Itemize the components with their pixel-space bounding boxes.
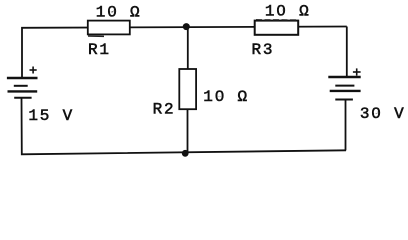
svg-text:30 V: 30 V [360,105,406,123]
svg-text:10 Ω: 10 Ω [203,88,249,106]
svg-text:R3: R3 [252,41,275,59]
svg-text:R2: R2 [153,101,176,119]
svg-text:R1: R1 [88,41,111,59]
svg-text:15 V: 15 V [28,107,74,125]
svg-text:10 Ω: 10 Ω [265,3,311,21]
svg-text:10 Ω: 10 Ω [96,3,142,21]
